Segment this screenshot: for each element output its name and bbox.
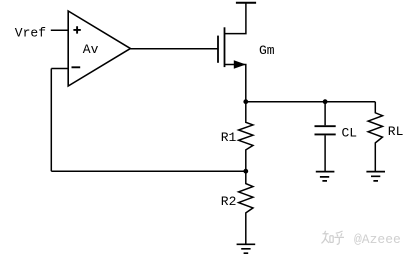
capacitor CL bottom lead — [324, 135, 326, 171]
wire Vref to + input — [51, 29, 68, 31]
capacitor CL plates — [315, 126, 336, 134]
VDD supply bar — [236, 2, 256, 4]
wire feedback horizontal — [51, 170, 246, 172]
resistor RL — [368, 102, 382, 172]
transistor Q1 channel plate — [224, 27, 226, 67]
transistor Q1 source lead — [225, 65, 246, 102]
svg-text:CL: CL — [342, 125, 358, 140]
op-amp U1 error amplifier triangle — [68, 11, 130, 86]
node CL junction dot — [323, 99, 328, 104]
wire feedback vertical — [50, 69, 52, 172]
capacitor CL top lead — [324, 102, 326, 126]
svg-text:RL: RL — [388, 124, 404, 139]
resistor R2 — [239, 171, 253, 244]
resistor R1 — [239, 102, 253, 172]
transistor Q1 gate plate — [217, 36, 219, 63]
svg-text:Gm: Gm — [259, 43, 275, 58]
transistor Q1 source arrow — [234, 61, 244, 68]
node feedback junction dot — [243, 169, 248, 174]
op-amp minus input symbol — [72, 66, 81, 68]
watermark zhihu logo glyph 知 — [322, 231, 345, 245]
watermark zhihu logo glyph 乎 — [334, 231, 344, 244]
svg-text:Vref: Vref — [15, 25, 46, 40]
wire Vout rail — [246, 101, 375, 103]
svg-text:Av: Av — [83, 42, 99, 57]
transistor Q1 drain lead — [225, 3, 246, 34]
node Vout junction dot — [243, 99, 248, 104]
ground CL — [316, 172, 335, 181]
svg-text:R1: R1 — [221, 130, 237, 145]
ground RL — [366, 172, 385, 181]
wire feedback to - input — [51, 68, 68, 70]
svg-text:@Azeee: @Azeee — [354, 232, 401, 247]
svg-text:R2: R2 — [221, 194, 237, 209]
wire op-amp output to gate — [130, 48, 218, 50]
ground R2 — [237, 244, 256, 253]
op-amp plus input symbol — [73, 26, 80, 33]
